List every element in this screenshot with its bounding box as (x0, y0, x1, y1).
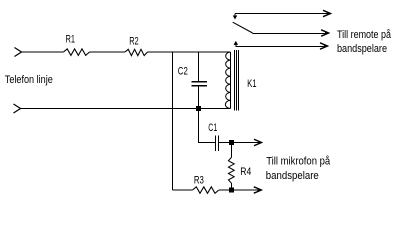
arrowhead switch middle (321, 30, 329, 36)
wire vertical tap to R3 (172, 52, 174, 190)
wire vertical through C2 down to C1 corner (199, 52, 216, 143)
switch lever wire (233, 22, 329, 33)
wire top phone line (22, 51, 231, 53)
arrowhead mikrofon bottom (254, 187, 261, 193)
resistor R3 (193, 187, 219, 194)
svg-text:C2: C2 (178, 66, 188, 78)
arrowhead mikrofon top (254, 139, 262, 145)
node input top arrowhead (15, 48, 22, 57)
switch contact bottom line (234, 42, 327, 47)
node junction C1 R4 (229, 140, 234, 145)
svg-text:R4: R4 (240, 166, 251, 178)
svg-text:R1: R1 (66, 34, 76, 46)
capacitor C2 (192, 82, 208, 86)
svg-text:K1: K1 (247, 78, 257, 90)
svg-text:C1: C1 (208, 122, 217, 134)
svg-text:Telefon linje: Telefon linje (5, 74, 53, 86)
wire bottom output rail (173, 189, 262, 191)
wire C1 output (218, 142, 262, 144)
switch contact top line (233, 14, 330, 19)
node junction C2 bottom wire (196, 106, 201, 111)
arrowhead switch top (323, 10, 331, 16)
svg-text:R3: R3 (194, 175, 204, 187)
svg-text:bandspelare: bandspelare (266, 170, 319, 182)
wire bottom phone line (21, 108, 231, 110)
svg-text:Till remote på: Till remote på (337, 29, 392, 41)
svg-text:Till mikrofon på: Till mikrofon på (266, 156, 331, 168)
capacitor C1 (216, 136, 219, 152)
svg-text:bandspelare: bandspelare (337, 43, 387, 55)
relay core lines (235, 50, 239, 111)
relay coil K1 (225, 52, 230, 109)
arrowhead switch bottom (320, 43, 328, 49)
svg-text:R2: R2 (129, 35, 139, 47)
resistor R1 (64, 49, 90, 56)
node junction R3 R4 (229, 188, 234, 193)
resistor R4 (228, 145, 234, 188)
node input bottom arrowhead (14, 104, 21, 113)
resistor R2 (125, 49, 148, 55)
